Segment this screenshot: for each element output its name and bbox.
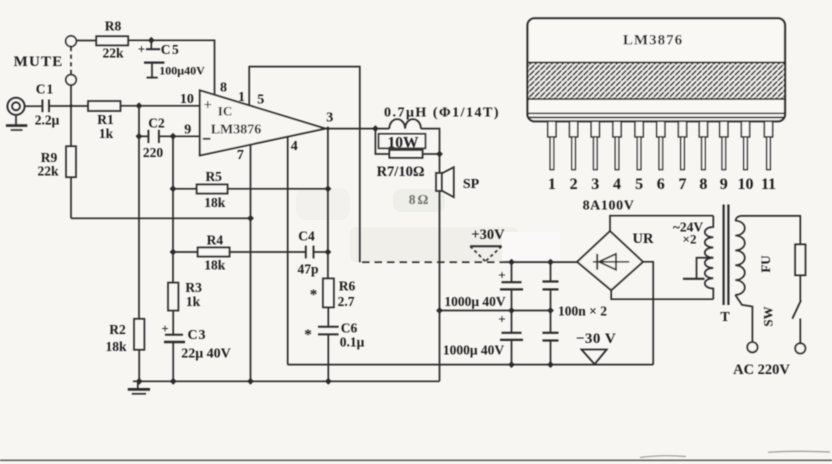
junction: R5 tap xyxy=(170,185,177,192)
scan baseline artifact xyxy=(0,459,832,461)
svg-text:9: 9 xyxy=(720,176,728,193)
wire: jack to C1 xyxy=(25,105,42,107)
label - input xyxy=(203,138,211,140)
svg-text:18k: 18k xyxy=(105,339,127,354)
svg-text:R5: R5 xyxy=(205,169,222,184)
wire: +30V rail xyxy=(505,261,577,263)
wire: bridge top AC to transformer xyxy=(610,216,713,232)
capacitor C3 xyxy=(164,311,185,382)
svg-text:11: 11 xyxy=(761,176,776,193)
wire: -30V rail xyxy=(288,364,654,366)
svg-text:4: 4 xyxy=(291,139,298,154)
svg-text:4: 4 xyxy=(613,176,621,193)
wire: primary top to fuse xyxy=(735,216,800,244)
svg-text:8: 8 xyxy=(699,176,707,193)
resistor R6 xyxy=(323,278,334,307)
wire: pin 4 negative supply line xyxy=(287,137,289,365)
svg-text:8: 8 xyxy=(220,81,227,96)
svg-text:10: 10 xyxy=(738,176,754,193)
svg-text:2.2μ: 2.2μ xyxy=(35,113,60,128)
package pin 5 xyxy=(635,121,643,169)
AC terminal (right) xyxy=(795,343,805,353)
svg-text:C1: C1 xyxy=(36,82,55,97)
resistor R8 xyxy=(96,36,128,45)
svg-text:+: + xyxy=(138,42,145,57)
junction: C5 tap xyxy=(148,37,155,44)
svg-text:*: * xyxy=(304,327,312,343)
wire: bridge + output to rail xyxy=(576,261,578,263)
package pin 1 xyxy=(548,121,556,169)
package pin 11 xyxy=(764,121,772,169)
junction: pin7/R9 xyxy=(247,215,254,222)
junction: R7 to speaker line xyxy=(436,151,443,158)
wire: MUTE to R8 xyxy=(76,40,96,42)
svg-text:R6: R6 xyxy=(339,279,356,294)
capacitor 1000μ40V (lower) xyxy=(500,311,523,365)
wire: R8 to IC pin 8 drop xyxy=(128,40,214,95)
svg-text:LM3876: LM3876 xyxy=(623,33,683,49)
svg-text:−30 V: −30 V xyxy=(576,331,616,347)
svg-text:8Ω: 8Ω xyxy=(409,192,431,207)
package pin 3 xyxy=(591,121,599,169)
speaker SP xyxy=(436,167,454,197)
svg-text:C2: C2 xyxy=(148,116,165,131)
package pin 8 xyxy=(699,121,707,169)
svg-text:UR: UR xyxy=(633,231,654,247)
svg-text:SW: SW xyxy=(761,306,776,326)
junction: C2/R2 branch xyxy=(136,102,143,109)
wire: secondary center tap xyxy=(683,258,713,279)
package pin 7 xyxy=(678,121,686,169)
svg-text:22k: 22k xyxy=(37,164,59,179)
wire: bottom ground rail xyxy=(133,380,440,382)
svg-text:SP: SP xyxy=(463,177,480,192)
wire: feedback vertical from output xyxy=(327,129,329,279)
svg-text:C3: C3 xyxy=(187,328,206,343)
svg-text:47p: 47p xyxy=(297,262,318,277)
svg-text:FU: FU xyxy=(758,255,773,273)
MUTE switch terminal (lower) xyxy=(66,75,76,85)
svg-text:R1: R1 xyxy=(97,112,114,127)
svg-text:10: 10 xyxy=(180,92,194,107)
wire: lower MUTE terminal to input node xyxy=(70,85,72,106)
inductor L 0.7μH xyxy=(389,119,421,129)
capacitor C4 xyxy=(306,246,328,259)
junction: C6 to ground rail xyxy=(325,378,332,385)
wire: primary bottom to AC terminal xyxy=(735,295,752,342)
svg-text:+: + xyxy=(498,312,505,327)
package pin 6 xyxy=(657,121,665,169)
svg-text:7: 7 xyxy=(237,148,244,163)
svg-text:IC: IC xyxy=(218,104,232,119)
wire: bridge - output down to -30V rail xyxy=(643,262,653,365)
capacitor C5 xyxy=(144,40,164,77)
capacitor 1000μ40V (upper) xyxy=(500,262,523,310)
wire: C1 to R1 (node with MUTE / R9) xyxy=(49,105,88,107)
package pin 4 xyxy=(613,121,621,169)
svg-text:2.7: 2.7 xyxy=(338,294,355,309)
wire: output to inductor xyxy=(325,128,389,130)
resistor R5 xyxy=(173,184,328,193)
junction: output node xyxy=(372,125,379,132)
wire: pins 1,5 supply loop xyxy=(249,67,360,263)
transformer core xyxy=(724,205,729,306)
svg-text:10W: 10W xyxy=(388,134,420,151)
svg-text:2: 2 xyxy=(570,176,578,193)
wire: bridge bottom AC to transformer xyxy=(611,290,713,299)
svg-text:1000μ 40V: 1000μ 40V xyxy=(444,294,506,309)
switch SW xyxy=(792,275,801,343)
svg-text:0.7μH (Φ1/14T): 0.7μH (Φ1/14T) xyxy=(384,106,500,121)
fuse FU xyxy=(795,244,805,275)
package mounting strip xyxy=(528,113,786,117)
transformer T secondary winding xyxy=(705,216,714,300)
resistor R7 damping branch xyxy=(375,129,439,158)
svg-text:5: 5 xyxy=(635,176,643,193)
svg-text:22μ 40V: 22μ 40V xyxy=(181,347,231,362)
svg-text:100n × 2: 100n × 2 xyxy=(558,304,607,319)
resistor R9 xyxy=(66,106,76,219)
svg-text:×2: ×2 xyxy=(683,231,697,246)
svg-text:9: 9 xyxy=(184,122,191,137)
svg-text:7: 7 xyxy=(679,176,687,193)
svg-text:+: + xyxy=(204,97,213,113)
junction: R4 tap xyxy=(170,249,177,256)
wire: branch down to C2 xyxy=(138,106,140,137)
svg-text:R7/10Ω: R7/10Ω xyxy=(377,164,425,180)
package pin 10 xyxy=(741,121,749,169)
wire: speaker return xyxy=(439,191,441,381)
svg-text:3: 3 xyxy=(326,110,333,125)
svg-text:1: 1 xyxy=(548,176,556,193)
wire: R9 to IC pin 7 line xyxy=(71,217,251,219)
transformer T primary winding xyxy=(735,221,745,295)
svg-text:T: T xyxy=(720,310,730,325)
capacitor C1 xyxy=(42,100,49,113)
svg-text:AC 220V: AC 220V xyxy=(733,362,790,378)
junction: C3 to ground rail xyxy=(170,378,177,385)
package hatched band xyxy=(528,63,786,100)
MUTE switch terminal (upper) xyxy=(66,36,77,47)
svg-text:R4: R4 xyxy=(207,233,224,248)
wire: PSU ground rail xyxy=(440,310,552,312)
svg-text:MUTE: MUTE xyxy=(14,54,64,70)
capacitor 100n (lower) xyxy=(543,311,559,365)
svg-text:6: 6 xyxy=(657,176,665,193)
MUTE dashed actuator xyxy=(70,47,72,74)
scan smudge patches xyxy=(296,188,560,262)
power -30V symbol xyxy=(582,350,607,365)
resistor R4 xyxy=(173,247,306,256)
svg-text:LM3876: LM3876 xyxy=(211,122,262,137)
svg-text:22k: 22k xyxy=(102,46,124,61)
svg-text:+: + xyxy=(498,268,505,283)
svg-text:+30V: +30V xyxy=(471,227,505,243)
wire: R1 to IC pin 10 xyxy=(121,105,200,107)
LM3876 package outline xyxy=(528,18,786,121)
capacitor 100n (upper) xyxy=(543,262,559,310)
capacitor C6 xyxy=(318,307,339,381)
svg-text:3: 3 xyxy=(591,176,599,193)
svg-text:18k: 18k xyxy=(204,195,226,210)
AC terminal (left) xyxy=(747,342,757,352)
wire: inductor to speaker line xyxy=(421,129,440,173)
label box 10W xyxy=(379,134,426,149)
resistor R1 xyxy=(88,101,121,111)
junction: pin9 node xyxy=(170,133,177,140)
svg-text:5: 5 xyxy=(257,92,264,107)
ground (main) xyxy=(128,381,150,394)
package pin 2 xyxy=(570,121,578,169)
wire: dashed +30V feed xyxy=(362,261,505,263)
svg-text:C4: C4 xyxy=(298,229,315,244)
op-amp IC LM3876 (U1) xyxy=(200,90,325,155)
junction: C4 to feedback line xyxy=(325,249,332,256)
svg-text:*: * xyxy=(310,287,318,303)
resistor R2 xyxy=(134,136,144,381)
junction: speaker return to PSU ground xyxy=(436,307,443,314)
input jack J xyxy=(7,98,24,115)
svg-text:1k: 1k xyxy=(99,126,114,141)
svg-text:R8: R8 xyxy=(105,19,122,34)
resistor R3 xyxy=(168,283,178,311)
power +30V symbol xyxy=(470,246,501,261)
svg-text:1000μ 40V: 1000μ 40V xyxy=(443,342,505,357)
svg-text:220: 220 xyxy=(143,145,164,160)
capacitor C2 xyxy=(139,130,200,143)
svg-text:C5: C5 xyxy=(161,42,181,57)
svg-text:8A100V: 8A100V xyxy=(583,199,635,214)
svg-text:100μ40V: 100μ40V xyxy=(159,64,205,78)
junction: R5 to feedback line xyxy=(325,185,332,192)
svg-text:R2: R2 xyxy=(109,322,126,337)
ground (input jack) xyxy=(6,115,27,130)
junction: input node xyxy=(69,104,73,108)
svg-text:1k: 1k xyxy=(186,294,201,309)
svg-text:0.1μ: 0.1μ xyxy=(340,335,365,350)
svg-text:R3: R3 xyxy=(185,280,202,295)
bridge rectifier UR xyxy=(577,231,643,290)
wire: pin 7 ground line xyxy=(250,145,252,381)
wire: inverting node down-line xyxy=(172,136,174,282)
svg-text:1: 1 xyxy=(238,90,245,105)
svg-text:+: + xyxy=(161,322,168,336)
package pin 9 xyxy=(720,121,728,169)
svg-text:18k: 18k xyxy=(204,258,226,273)
svg-text:C6: C6 xyxy=(341,321,358,336)
